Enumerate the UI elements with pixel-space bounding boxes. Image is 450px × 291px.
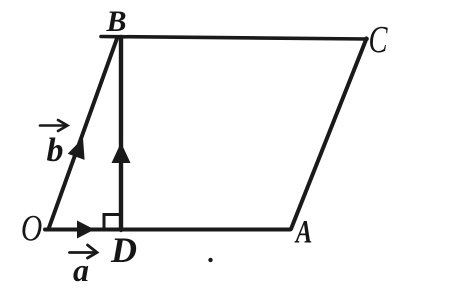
svg-text:A: A — [294, 214, 312, 250]
svg-text:C: C — [368, 19, 388, 61]
svg-text:b: b — [47, 132, 64, 169]
svg-text:O: O — [21, 208, 42, 249]
svg-text:a: a — [73, 252, 89, 288]
svg-text:B: B — [105, 5, 126, 38]
svg-text:D: D — [110, 230, 137, 270]
